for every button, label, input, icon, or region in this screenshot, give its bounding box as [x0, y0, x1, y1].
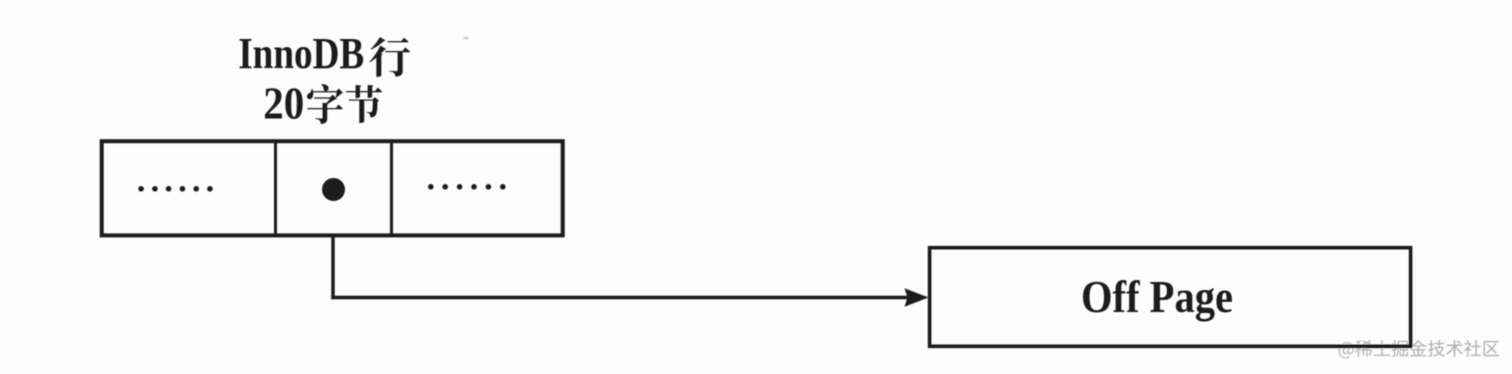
- label text "InnoDB行" line 1: [238, 29, 410, 78]
- svg-text:InnoDB: InnoDB: [238, 29, 364, 78]
- svg-text:20: 20: [263, 78, 304, 129]
- arrowhead: [905, 288, 929, 307]
- pointer bullet in middle cell: [322, 178, 345, 201]
- wire vertical from middle cell down: [331, 235, 334, 299]
- cell divider right: [390, 141, 393, 235]
- stray scan speck: [463, 37, 468, 40]
- label text "20字节" line 2: [263, 78, 382, 129]
- watermark "@稀土掘金技术社区": [1339, 340, 1499, 359]
- Off Page box: [930, 248, 1411, 347]
- cell divider left: [274, 141, 277, 235]
- ellipsis dots in right cell: [428, 184, 506, 190]
- wire horizontal to Off Page box: [331, 296, 907, 299]
- ellipsis dots in left cell: [138, 186, 212, 192]
- svg-text:Off Page: Off Page: [1081, 272, 1233, 322]
- record row box (3 cells): [102, 141, 563, 235]
